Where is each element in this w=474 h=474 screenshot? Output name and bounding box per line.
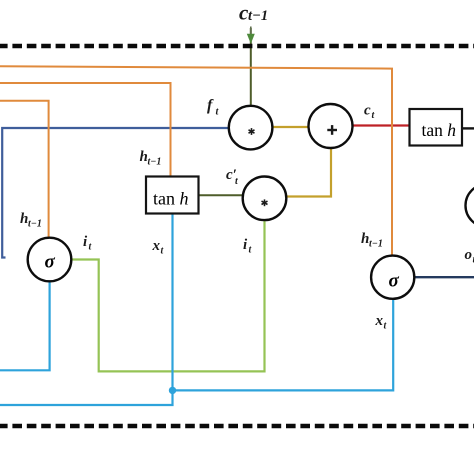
svg-text:tan h: tan h — [422, 120, 457, 140]
svg-text:t−1: t−1 — [148, 157, 162, 168]
svg-text:x: x — [375, 313, 384, 329]
svg-text:c: c — [364, 103, 371, 119]
svg-text:tan h: tan h — [153, 189, 189, 209]
svg-text:t−1: t−1 — [248, 8, 268, 24]
svg-text:o: o — [465, 247, 473, 263]
svg-text:σ: σ — [389, 271, 400, 292]
svg-text:t−1: t−1 — [369, 239, 383, 250]
svg-text:x: x — [152, 238, 161, 254]
svg-text:t−1: t−1 — [28, 219, 42, 230]
svg-text:σ: σ — [45, 252, 56, 273]
